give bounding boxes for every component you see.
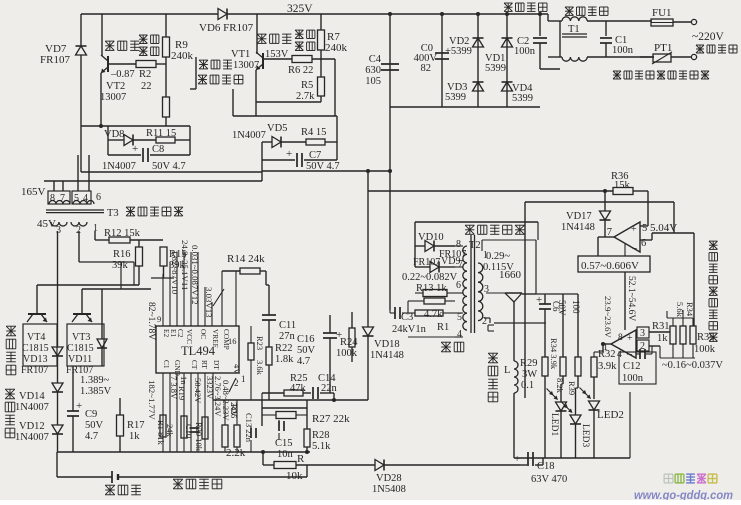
svg-text:VD14: VD14 bbox=[19, 391, 45, 402]
svg-text:VT2: VT2 bbox=[106, 81, 125, 92]
svg-text:5399: 5399 bbox=[445, 92, 466, 103]
svg-text:23.9~23.6V: 23.9~23.6V bbox=[603, 296, 613, 339]
svg-text:R34: R34 bbox=[685, 302, 695, 317]
svg-text:3.9k: 3.9k bbox=[598, 361, 617, 372]
svg-text:13007: 13007 bbox=[233, 60, 259, 71]
svg-text:VD13: VD13 bbox=[23, 354, 47, 365]
svg-text:0.031~0.087V12: 0.031~0.087V12 bbox=[190, 245, 200, 305]
svg-text:24kV1n: 24kV1n bbox=[392, 324, 427, 335]
svg-text:C3: C3 bbox=[401, 312, 413, 323]
svg-text:24.8~25.1V11: 24.8~25.1V11 bbox=[180, 240, 190, 290]
svg-text:R22: R22 bbox=[275, 343, 293, 354]
svg-text:82: 82 bbox=[421, 63, 432, 74]
svg-text:VT3: VT3 bbox=[72, 332, 90, 343]
svg-text:182~1.77V: 182~1.77V bbox=[147, 380, 157, 420]
svg-text:R11 15: R11 15 bbox=[146, 128, 176, 139]
svg-text:2.7k: 2.7k bbox=[296, 91, 315, 102]
svg-text:1k: 1k bbox=[657, 333, 668, 344]
svg-text:+: + bbox=[286, 148, 292, 160]
svg-text:1N5408: 1N5408 bbox=[372, 484, 406, 495]
svg-text:1N4148: 1N4148 bbox=[370, 350, 404, 361]
svg-text:–: – bbox=[631, 243, 638, 254]
svg-text:15k: 15k bbox=[614, 180, 631, 191]
svg-text:R31: R31 bbox=[652, 321, 670, 332]
svg-text:C15: C15 bbox=[275, 438, 293, 449]
svg-text:T3: T3 bbox=[107, 208, 119, 219]
svg-text:VT4: VT4 bbox=[27, 332, 45, 343]
svg-text:R13 1k: R13 1k bbox=[416, 283, 447, 294]
svg-text:DT: DT bbox=[212, 360, 221, 370]
svg-text:105: 105 bbox=[365, 76, 381, 87]
svg-text:1.385V: 1.385V bbox=[80, 386, 112, 397]
svg-text:165V: 165V bbox=[21, 186, 46, 198]
svg-text:R14 24k: R14 24k bbox=[227, 253, 265, 265]
svg-text:1.8k: 1.8k bbox=[275, 354, 294, 365]
svg-text:5.1k: 5.1k bbox=[312, 441, 331, 452]
svg-text:T1: T1 bbox=[568, 24, 580, 35]
svg-text:VD11: VD11 bbox=[68, 354, 92, 365]
svg-text:8: 8 bbox=[618, 333, 623, 343]
svg-text:82~1.78V: 82~1.78V bbox=[146, 302, 156, 340]
svg-text:R23: R23 bbox=[255, 336, 265, 350]
svg-text:50V 4.7: 50V 4.7 bbox=[152, 161, 186, 172]
svg-text:0.1: 0.1 bbox=[521, 380, 534, 391]
svg-text:R34 3.9k: R34 3.9k bbox=[549, 338, 559, 370]
svg-text:LED2: LED2 bbox=[597, 409, 624, 421]
svg-text:1k: 1k bbox=[129, 431, 140, 442]
svg-text:100k: 100k bbox=[694, 344, 716, 355]
svg-text:3: 3 bbox=[640, 328, 645, 339]
svg-text:C13 22n: C13 22n bbox=[244, 413, 254, 443]
svg-text:VD12: VD12 bbox=[19, 421, 45, 432]
svg-text:RT: RT bbox=[200, 360, 209, 369]
svg-text:3: 3 bbox=[56, 225, 61, 236]
svg-text:CT: CT bbox=[190, 360, 199, 370]
svg-text:TL494: TL494 bbox=[181, 344, 216, 358]
svg-text:C1815: C1815 bbox=[67, 343, 94, 354]
svg-text:10n: 10n bbox=[277, 449, 294, 460]
svg-text:C16: C16 bbox=[297, 334, 315, 345]
svg-text:50V: 50V bbox=[557, 300, 567, 316]
svg-text:C2: C2 bbox=[176, 329, 185, 338]
svg-text:1N4007: 1N4007 bbox=[102, 161, 136, 172]
svg-text:100n: 100n bbox=[514, 46, 536, 57]
svg-text:4: 4 bbox=[457, 329, 462, 340]
svg-text:22: 22 bbox=[141, 81, 152, 92]
svg-text:VD8: VD8 bbox=[104, 129, 124, 140]
svg-text:R4 15: R4 15 bbox=[301, 127, 326, 138]
svg-text:27n: 27n bbox=[279, 331, 296, 342]
svg-text:0.29~: 0.29~ bbox=[486, 251, 510, 262]
svg-text:www.go-gddq.com: www.go-gddq.com bbox=[634, 488, 733, 500]
svg-text:R29: R29 bbox=[520, 358, 538, 369]
svg-text:+: + bbox=[132, 143, 138, 155]
svg-text:C1815: C1815 bbox=[22, 343, 49, 354]
svg-text:R24: R24 bbox=[340, 337, 358, 348]
svg-text:100n: 100n bbox=[612, 45, 634, 56]
svg-text:–: – bbox=[626, 349, 633, 360]
svg-text:VD28: VD28 bbox=[376, 473, 402, 484]
svg-text:R5: R5 bbox=[301, 80, 313, 91]
svg-text:1N4007: 1N4007 bbox=[232, 130, 266, 141]
svg-text:9: 9 bbox=[157, 314, 161, 324]
svg-text:L: L bbox=[504, 365, 510, 376]
svg-text:VD17: VD17 bbox=[566, 211, 592, 222]
svg-text:4.7: 4.7 bbox=[297, 356, 310, 367]
svg-text:VD5: VD5 bbox=[267, 123, 287, 134]
svg-text:50.42V: 50.42V bbox=[193, 378, 203, 404]
svg-text:C1: C1 bbox=[162, 360, 171, 369]
svg-text:7: 7 bbox=[458, 259, 463, 270]
svg-text:~220V: ~220V bbox=[692, 31, 724, 43]
svg-text:+: + bbox=[76, 400, 82, 412]
svg-text:1660: 1660 bbox=[499, 269, 522, 281]
svg-text:5399: 5399 bbox=[485, 63, 506, 74]
svg-text:100: 100 bbox=[571, 300, 581, 314]
svg-text:1N4007: 1N4007 bbox=[15, 432, 49, 443]
svg-text:16: 16 bbox=[228, 336, 237, 346]
svg-text:PT1: PT1 bbox=[654, 42, 672, 54]
svg-text:C11: C11 bbox=[279, 320, 296, 331]
svg-text:C8: C8 bbox=[152, 144, 164, 155]
svg-text:LED3: LED3 bbox=[580, 424, 590, 447]
svg-text:325V: 325V bbox=[287, 3, 313, 15]
svg-text:+: + bbox=[627, 333, 633, 344]
svg-text:5: 5 bbox=[642, 223, 647, 234]
svg-text:+: + bbox=[514, 453, 520, 465]
svg-text:50V: 50V bbox=[85, 420, 104, 431]
svg-text:C10: C10 bbox=[184, 424, 194, 438]
svg-text:5.04V: 5.04V bbox=[650, 222, 677, 234]
svg-text:R1 81k: R1 81k bbox=[156, 420, 166, 446]
svg-text:100k: 100k bbox=[336, 348, 358, 359]
svg-text:+: + bbox=[536, 294, 542, 306]
svg-text:R28: R28 bbox=[312, 430, 330, 441]
svg-text:~0.16~0.037V: ~0.16~0.037V bbox=[662, 360, 723, 371]
svg-text:FR107: FR107 bbox=[21, 365, 48, 376]
svg-text:1N4007: 1N4007 bbox=[15, 402, 49, 413]
svg-text:10k: 10k bbox=[286, 470, 303, 482]
svg-text:C18: C18 bbox=[537, 461, 555, 472]
svg-text:R16: R16 bbox=[113, 249, 131, 260]
svg-text:5: 5 bbox=[457, 312, 462, 323]
svg-text:1N4148: 1N4148 bbox=[561, 222, 595, 233]
svg-text:1n: 1n bbox=[179, 376, 189, 385]
svg-text:R1: R1 bbox=[437, 322, 449, 333]
svg-text:2.2k: 2.2k bbox=[226, 447, 246, 459]
svg-text:45V: 45V bbox=[37, 218, 56, 230]
svg-text:R17: R17 bbox=[127, 420, 145, 431]
svg-text:R2: R2 bbox=[139, 69, 151, 80]
svg-text:VT1: VT1 bbox=[231, 49, 250, 60]
svg-text:R27 22k: R27 22k bbox=[312, 413, 350, 425]
svg-text:240k: 240k bbox=[325, 42, 348, 54]
svg-text:VD6 FR107: VD6 FR107 bbox=[199, 22, 254, 34]
svg-text:+: + bbox=[631, 224, 637, 235]
svg-text:630: 630 bbox=[365, 65, 381, 76]
svg-text:VCC: VCC bbox=[185, 329, 194, 344]
svg-text:240k: 240k bbox=[171, 50, 194, 62]
svg-text:LED1: LED1 bbox=[549, 413, 559, 436]
svg-text:8: 8 bbox=[50, 193, 55, 204]
svg-text:39k: 39k bbox=[112, 260, 129, 271]
svg-text:FR107: FR107 bbox=[40, 54, 70, 66]
svg-text:VREF: VREF bbox=[211, 329, 220, 348]
svg-text:3.6k: 3.6k bbox=[255, 360, 265, 376]
svg-text:1.389~: 1.389~ bbox=[80, 375, 110, 386]
svg-text:3W: 3W bbox=[522, 369, 537, 380]
svg-text:50V: 50V bbox=[297, 345, 316, 356]
svg-text:52.1~54.6V: 52.1~54.6V bbox=[626, 276, 636, 321]
svg-text:FU1: FU1 bbox=[652, 7, 672, 19]
svg-text:C9: C9 bbox=[85, 409, 97, 420]
svg-text:C4: C4 bbox=[369, 54, 382, 65]
svg-text:OC: OC bbox=[199, 329, 208, 339]
svg-text:5.6k: 5.6k bbox=[675, 302, 685, 318]
svg-text:1.82~87V10: 1.82~87V10 bbox=[170, 250, 180, 295]
svg-text:13007: 13007 bbox=[100, 92, 126, 103]
svg-text:–0.87: –0.87 bbox=[110, 69, 135, 80]
svg-text:R19: R19 bbox=[177, 386, 187, 400]
svg-text:100n: 100n bbox=[622, 373, 644, 384]
svg-text:5: 5 bbox=[74, 193, 79, 204]
svg-text:R6 22: R6 22 bbox=[288, 65, 313, 76]
svg-text:0.22~0.082V: 0.22~0.082V bbox=[402, 272, 458, 283]
svg-text:C7: C7 bbox=[309, 150, 321, 161]
svg-text:R32: R32 bbox=[598, 349, 616, 360]
svg-text:22n: 22n bbox=[321, 383, 338, 394]
svg-text:VD18: VD18 bbox=[374, 339, 400, 350]
svg-text:5399: 5399 bbox=[512, 93, 533, 104]
svg-text:VD10: VD10 bbox=[418, 232, 444, 243]
svg-text:R: R bbox=[297, 453, 305, 465]
svg-text:63V 470: 63V 470 bbox=[531, 474, 567, 485]
svg-text:3.03V13: 3.03V13 bbox=[204, 287, 214, 318]
svg-text:6: 6 bbox=[456, 280, 461, 291]
svg-text:R12 15k: R12 15k bbox=[104, 228, 141, 239]
svg-text:1: 1 bbox=[241, 374, 246, 384]
svg-text:4.7: 4.7 bbox=[85, 431, 98, 442]
svg-text:C12: C12 bbox=[623, 361, 641, 372]
svg-text:+5399: +5399 bbox=[445, 46, 472, 57]
svg-text:0.57~0.606V: 0.57~0.606V bbox=[581, 260, 639, 272]
svg-text:6: 6 bbox=[96, 192, 101, 203]
